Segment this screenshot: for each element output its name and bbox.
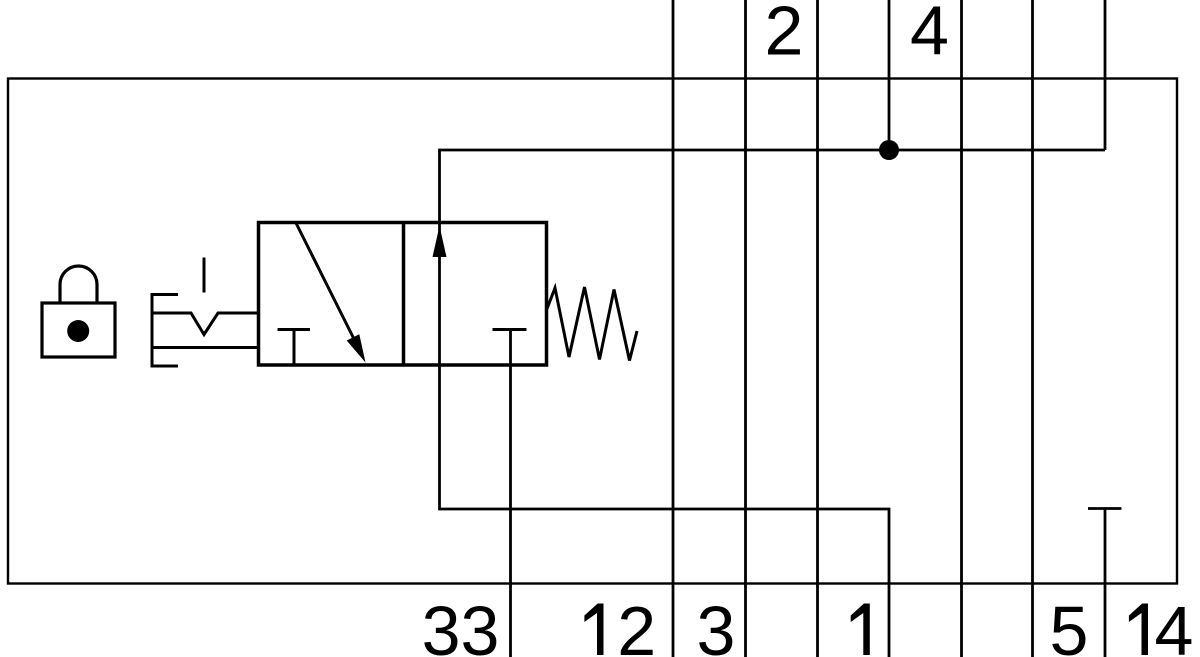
- manual actuator lower bar: [152, 346, 259, 349]
- svg-text:5: 5: [1050, 592, 1089, 657]
- wire: port 1 lower wire from valve: [440, 223, 890, 657]
- wire: vertical line right of port 1: [960, 0, 963, 657]
- svg-text:4: 4: [1155, 592, 1194, 657]
- spring return: [547, 287, 638, 361]
- wire: horizontal pilot line to valve top: [440, 150, 1106, 223]
- wire: port 33 line from valve T-stem: [509, 330, 512, 657]
- enclosure border: [8, 79, 1177, 584]
- port 14 blocked stub (T symbol): [1088, 509, 1122, 657]
- padlock body: [42, 303, 115, 357]
- wire: port 4 vertical line (top, ends at junction): [888, 0, 891, 150]
- manual actuator bracket: [152, 295, 178, 367]
- svg-text:33: 33: [422, 592, 500, 657]
- padlock shackle: [60, 266, 97, 303]
- node: junction dot: [879, 140, 899, 160]
- svg-text:3: 3: [697, 592, 736, 657]
- detent pin: [203, 258, 206, 293]
- wire: port 3 vertical line: [744, 0, 747, 657]
- valve V1 body: [259, 223, 547, 366]
- svg-text:2: 2: [617, 592, 656, 657]
- valve V1 right cell blocked port T: [493, 328, 527, 331]
- wire: port 12 vertical line: [672, 0, 675, 657]
- valve V1 cell divider: [402, 223, 406, 366]
- label 1: [851, 604, 870, 656]
- valve V1 right cell up arrow: [433, 226, 447, 257]
- label 12: [584, 592, 656, 657]
- manual actuator upper bar with detent notch: [152, 313, 259, 335]
- svg-text:2: 2: [765, 0, 804, 70]
- valve V1 left cell flow arrow: [296, 223, 366, 363]
- wire: vertical line left of port 5: [1031, 0, 1034, 657]
- valve V1 left cell blocked port T: [278, 330, 311, 366]
- padlock keyhole dot: [67, 320, 89, 342]
- wire: vertical line at port 14 (top segment): [1104, 0, 1107, 150]
- svg-text:4: 4: [910, 0, 949, 70]
- wire: vertical line left of port 1: [816, 0, 819, 657]
- label 14: [1129, 592, 1194, 657]
